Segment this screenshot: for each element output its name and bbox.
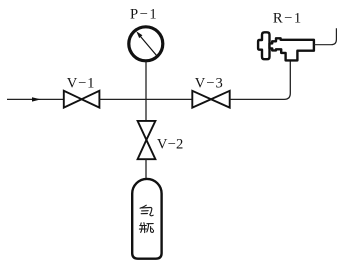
wire: main inlet line	[7, 98, 64, 100]
svg-text:V−1: V−1	[67, 76, 95, 92]
svg-text:R−1: R−1	[273, 10, 303, 26]
svg-text:V−2: V−2	[157, 136, 184, 152]
cylinder label char 瓶	[139, 223, 153, 233]
wire: V-3 to regulator drop pipe	[230, 61, 291, 99]
wire: gauge drop line to V-2	[145, 62, 147, 122]
wire: regulator outlet	[314, 28, 337, 44]
valve V-1	[64, 91, 100, 108]
regulator R-1 knob	[258, 32, 269, 59]
cylinder label char 气	[140, 205, 153, 216]
valve V-3	[192, 91, 229, 108]
valve V-2	[138, 121, 156, 159]
svg-text:V−3: V−3	[195, 75, 224, 91]
wire: between V-1 and V-3 through junction	[99, 98, 192, 100]
wire: V-2 to cylinder	[145, 159, 147, 180]
regulator R-1 body	[270, 38, 314, 60]
svg-text:P−1: P−1	[130, 6, 158, 22]
gas cylinder	[132, 179, 161, 259]
flow arrow on inlet line	[32, 97, 41, 101]
pressure gauge P-1	[129, 27, 163, 61]
